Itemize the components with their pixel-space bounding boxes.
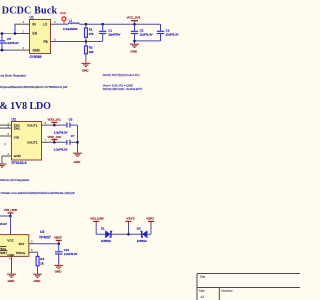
svg-text:47K: 47K [89,32,94,36]
capacitor C2 [131,24,153,43]
net label fragment V [4,143,7,147]
svg-text:R4: R4 [40,257,44,261]
junction at C2 top [133,23,136,26]
svg-text:22uF/6.3V: 22uF/6.3V [140,32,153,36]
svg-text:2.2uH/9430: 2.2uH/9430 [63,27,78,31]
power port VSYS [126,217,135,235]
power port VIN_USB (charger) [4,208,17,216]
pin 1 (EN) [15,30,30,34]
svg-text:R2: R2 [89,46,93,50]
power port VBAT (charger) [54,236,62,244]
svg-text:A4: A4 [200,295,204,299]
title block [197,274,300,300]
U2 pin VIN [0,132,12,136]
inductor L1 [63,19,79,31]
wire: down to U3 VCC [10,216,12,235]
note: buck regulator description [0,73,26,77]
capacitor C10 [55,244,78,265]
U2 pin EN2 [0,121,12,125]
ground under R4 [33,274,42,283]
junction at C5 top [1,32,4,35]
svg-text:RT9192-6: RT9192-6 [12,161,27,165]
svg-text:GND: GND [82,69,90,73]
svg-text:1N5819: 1N5819 [137,239,147,243]
svg-text:GND: GND [74,160,82,164]
wire: diode OR rail [96,233,151,235]
svg-text:Title: Title [199,275,205,279]
svg-text:VOUT2: VOUT2 [27,141,38,145]
svg-text:VBAT: VBAT [146,217,154,221]
capacitor value fragment (cut off) [0,222,7,226]
wire: GND rail to left edge [0,49,15,51]
svg-text:GND: GND [8,279,16,283]
svg-text:D2: D2 [137,227,141,231]
power port VBAT (diode OR) [146,217,154,235]
svg-text:VCC: VCC [7,239,14,243]
svg-text:VBAT: VBAT [54,236,62,240]
capacitor C1 [99,24,120,41]
svg-text:F/6.3V: F/6.3V [0,222,7,226]
svg-text:U2: U2 [12,118,16,122]
svg-text:L1: L1 [69,19,73,23]
svg-text:VIN_USB: VIN_USB [4,208,17,212]
svg-text:VIN_USB: VIN_USB [90,217,103,221]
power port VDD_1V1 [48,118,62,126]
wire: EN input from left edge [0,33,15,35]
svg-text:VIN: VIN [14,136,19,140]
ground under R2 [81,63,90,72]
svg-text:TP4057: TP4057 [39,236,51,240]
svg-text:PROG: PROG [16,251,26,255]
svg-text:e, 200mA LDO Regulator: e, 200mA LDO Regulator [0,178,30,182]
svg-text:22uF/6.3V: 22uF/6.3V [166,32,179,36]
svg-text:Size: Size [199,289,205,293]
svg-text:BAT: BAT [19,242,25,246]
junction VSYS [127,233,130,236]
svg-text:pod/upload/files/2016/09/SILER: pod/upload/files/2016/09/SILERGY-SY8089A… [0,85,67,89]
svg-text:EN1: EN1 [14,127,20,131]
wire: vertical to ground [77,125,79,153]
capacitor C6 [54,118,78,135]
svg-text:VCC_3V3: VCC_3V3 [127,15,141,19]
diode D1 [101,227,112,244]
note: Vout values [103,83,133,87]
diode D2 [137,227,148,244]
junction VDD_1V8 [53,141,56,144]
note: datasheet link 2 [0,191,75,195]
svg-text:VDD_1V8: VDD_1V8 [48,135,62,139]
IC U3 body (TP4057 charger, cut at left) [0,230,51,257]
junction VBAT [57,242,60,245]
svg-text:VSYS: VSYS [126,217,134,221]
svg-text:Node: Node [60,11,67,15]
ground under C2 [130,44,139,53]
svg-text:R2=(0.6V)*(R1)/(Vout-0.6V): R2=(0.6V)*(R1)/(Vout-0.6V) [103,73,140,77]
pin 2 (GND) [15,46,30,50]
wire: VIN_USB rail to left edge [0,215,11,217]
wire: output rail VCC_3V3 [79,23,160,25]
svg-text:D1: D1 [101,227,105,231]
U2 pin VOUT1 [42,121,50,125]
wire: vertical joining IN and EN [14,24,16,34]
wire: FB node [57,41,103,43]
junction at C1 top [101,23,104,26]
wire: LX to inductor [57,23,68,25]
svg-text:2.2uF/6.3V: 2.2uF/6.3V [64,252,78,256]
svg-text:nous Buck Regulator: nous Buck Regulator [0,73,26,77]
svg-text:GND: GND [33,48,41,52]
junction at x15 EN [14,32,17,35]
svg-text:SY8089: SY8089 [30,55,42,59]
svg-text:2.2uF/6.3V: 2.2uF/6.3V [5,41,19,45]
svg-text:& 1V8 LDO: & 1V8 LDO [0,101,51,112]
ground under U3 [7,274,16,283]
junction at C5 bottom [1,49,4,52]
ground at U2 GND pin (cut off) [0,156,7,167]
junction VDD_1V1 [53,124,56,127]
resistor R2 [85,42,94,63]
pin 3 (LX) [51,20,58,24]
svg-text:U3: U3 [40,230,44,234]
svg-text:22pF/50V: 22pF/50V [108,32,120,36]
capacitor C5 [0,34,19,51]
junction at C2 bottom [133,40,136,43]
svg-text:GND: GND [130,50,138,54]
svg-text:Number: Number [221,289,233,293]
junction at FB/R1/R2 [85,40,88,43]
svg-text:VDD_1V1: VDD_1V1 [48,118,62,122]
power port VCC_3V3 [127,15,141,24]
pin 5 (FB) [51,38,58,42]
junction VIN_USB [9,215,12,218]
wire: bottom rail C2-C3 [135,40,161,42]
section title: & 1V8 LDO [0,101,51,112]
wire: VOUT1 to C6 [49,124,67,126]
note: datasheet link 1 [0,85,67,89]
pin 4 (IN) [15,20,30,24]
wire: BAT to C10 [36,243,59,245]
junction at R1 top [85,23,88,26]
svg-text:R2=22.22K=22K, Vout=3.327V: R2=22.22K=22K, Vout=3.327V [103,87,143,91]
wire: VOUT2 to C7 [49,141,67,143]
U3 pin BAT [29,240,36,244]
junction at C7 vertical [76,141,79,144]
resistor R1 [85,24,94,41]
svg-text:GND: GND [55,270,63,274]
capacitor C3 [157,24,179,41]
svg-text:EN: EN [33,32,38,36]
svg-text:C7: C7 [71,134,75,138]
note: feedback formula [103,73,140,77]
U2 pin VOUT2 [42,138,50,142]
svg-text:2.2uF/6.3V: 2.2uF/6.3V [54,147,68,151]
wire: PROG to R4 [37,252,39,256]
svg-text:2K: 2K [40,262,44,266]
svg-text:GND: GND [14,154,22,158]
U3 pin PROG [29,248,38,252]
section title: DCDC Buck [2,6,58,17]
svg-text:GND: GND [34,279,42,283]
note: LDO description [0,178,30,182]
ground under C10 [54,265,63,273]
svg-text:U1: U1 [30,16,34,20]
U2 pin EN1 [0,124,12,128]
svg-text:10K: 10K [89,50,94,54]
IC U2 body (RT9192 LDO) [12,118,42,165]
ground under LDO caps [73,153,82,164]
note: R2 values [103,87,143,91]
capacitor C7 [54,134,78,151]
U2 pin GND [2,152,12,156]
svg-text:C6: C6 [69,118,73,122]
svg-text:w.richtek.com.tw/RichTek%20CD/: w.richtek.com.tw/RichTek%20CD/Docs/DS919… [0,191,75,195]
power port VIN_USB (diode OR) [90,217,103,235]
svg-text:VOUT1: VOUT1 [27,123,38,127]
svg-text:1N5819: 1N5819 [101,239,111,243]
probe marker "Node" [60,11,67,24]
resistor R4 [36,256,44,273]
IC U1 body (SY8089 buck regulator) [30,16,51,60]
U3 pin GND wire [9,256,12,273]
svg-text:STDBY: STDBY [0,251,7,255]
svg-text:R1: R1 [89,27,93,31]
power port VDD_1V8 [48,135,62,143]
